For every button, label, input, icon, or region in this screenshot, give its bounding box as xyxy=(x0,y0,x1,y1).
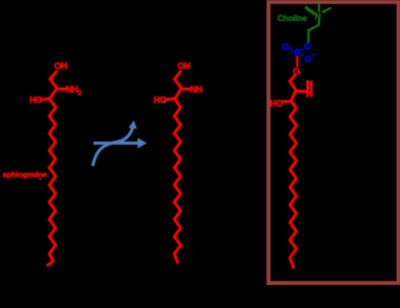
bond O-C1 xyxy=(290,76,295,82)
bond C2-NH xyxy=(182,88,190,91)
artifact pixels (gif palette noise) xyxy=(40,72,310,180)
svg-text:sphingosine: sphingosine xyxy=(3,170,48,179)
bond HO-C3 xyxy=(41,97,50,101)
bond P-O up xyxy=(300,49,303,51)
svg-text:N: N xyxy=(315,12,321,22)
bond C1-C2 xyxy=(50,79,57,89)
bond C2-C3 xyxy=(175,89,182,99)
bond C1-C2 xyxy=(290,81,296,90)
double bond ticks O=P xyxy=(290,48,292,51)
bond C1-OH xyxy=(175,72,181,80)
svg-text:+: + xyxy=(322,9,326,16)
svg-text:OH: OH xyxy=(54,61,67,71)
svg-text:Choline: Choline xyxy=(278,14,308,23)
svg-text:O: O xyxy=(304,41,311,51)
alkyl chain tail xyxy=(48,99,56,265)
bond C2-H xyxy=(297,90,306,93)
methyl up-right xyxy=(324,8,330,11)
bond P-O ester xyxy=(296,57,298,67)
bond C1-OH xyxy=(50,72,57,80)
methyl up-left xyxy=(307,8,314,13)
bond HO-C3 xyxy=(166,97,175,101)
svg-text:HO: HO xyxy=(30,95,43,105)
bond C1-C2 xyxy=(175,79,182,89)
reaction arrow curved xyxy=(93,126,133,166)
bond C2-C3 xyxy=(291,90,296,101)
molecule product (middle) xyxy=(166,72,190,263)
svg-text:OH: OH xyxy=(178,61,191,71)
methyl up xyxy=(318,4,320,12)
bond C2-C3 xyxy=(50,89,58,99)
reaction arrow straight xyxy=(94,138,148,149)
svg-text:O: O xyxy=(293,67,300,77)
highlight box xyxy=(269,2,399,283)
phosphate group (blue) xyxy=(282,41,316,64)
svg-text:O: O xyxy=(282,42,289,52)
svg-text:HO: HO xyxy=(270,98,283,108)
alkyl chain tail xyxy=(290,101,296,267)
alkyl chain tail xyxy=(174,99,180,262)
choline group (green) xyxy=(307,4,331,42)
molecule sphingosine (left) xyxy=(41,72,65,266)
bond C2-NH2 xyxy=(58,88,66,91)
sphingosine backbone inside box (red) xyxy=(283,57,306,268)
label H upper and lower (merged ladder) xyxy=(306,80,309,97)
bond HO-C3 xyxy=(283,100,292,104)
bond P-O minus xyxy=(300,54,303,56)
svg-text:NH: NH xyxy=(190,85,202,95)
svg-text:HO: HO xyxy=(154,95,167,105)
bond N-CH2 xyxy=(308,21,319,42)
